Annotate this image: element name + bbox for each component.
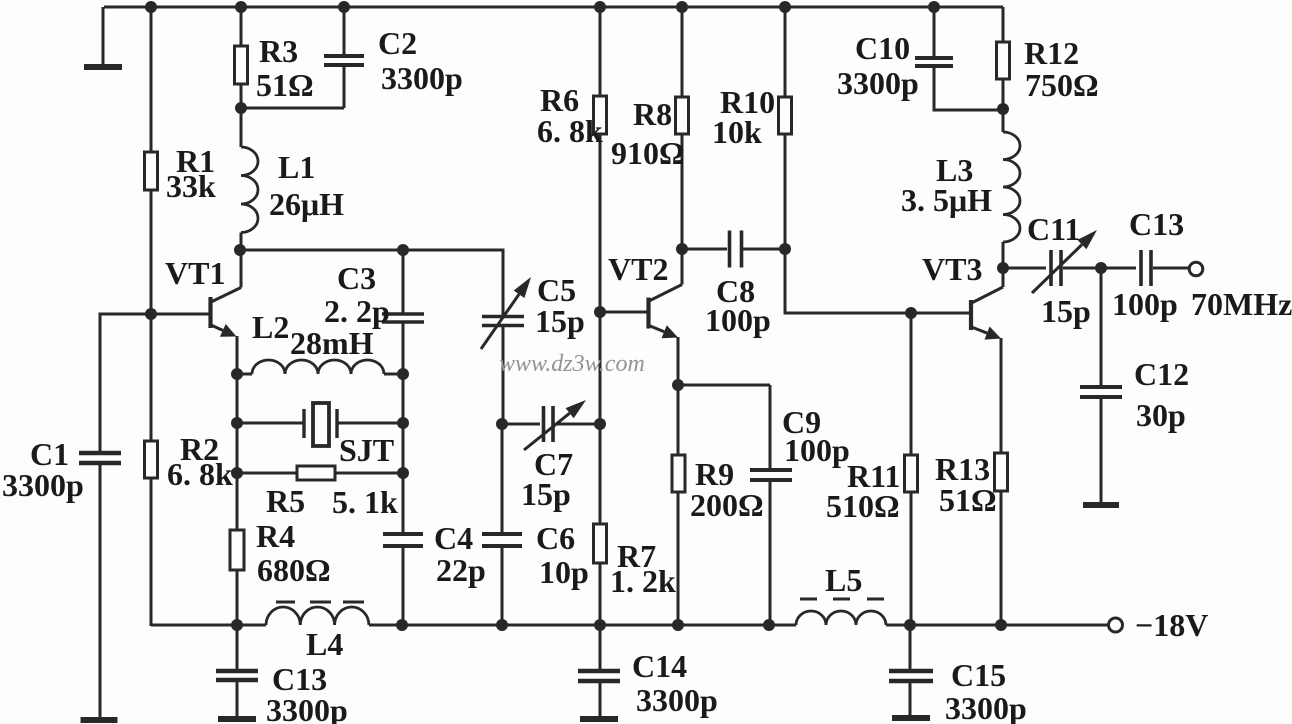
inductor L4	[266, 607, 369, 625]
capacitor C12	[1080, 385, 1122, 389]
wire C14 stub	[599, 625, 602, 670]
wire C14 to ground	[599, 681, 602, 717]
svg-text:33k: 33k	[166, 168, 216, 204]
wire C3 top	[402, 250, 405, 313]
capacitor C2	[324, 54, 364, 58]
wire C12 top	[1100, 268, 1103, 386]
wire C2 top	[343, 7, 346, 54]
inductor L5	[796, 611, 886, 625]
wire R2 to rail	[150, 478, 153, 626]
inductor L1	[241, 147, 258, 233]
wire C9 top	[769, 385, 772, 469]
svg-text:750Ω: 750Ω	[1025, 67, 1099, 103]
svg-text:L1: L1	[278, 149, 315, 185]
wire C3 to L2 node	[402, 322, 405, 374]
wire R10 top	[784, 7, 787, 97]
wire VT2 base	[600, 311, 647, 314]
wire emitter node to R9	[677, 385, 680, 455]
svg-text:www.dz3w.com: www.dz3w.com	[499, 351, 645, 377]
ground C1	[81, 717, 118, 723]
capacitor C1	[79, 451, 121, 456]
capacitor C6	[482, 532, 522, 536]
svg-text:R3: R3	[259, 33, 298, 69]
svg-text:L2: L2	[252, 309, 289, 345]
wire C10 top	[933, 7, 936, 56]
svg-text:L5: L5	[825, 562, 862, 598]
wire R1 column top	[150, 7, 153, 152]
svg-text:R8: R8	[633, 96, 672, 132]
svg-text:C15: C15	[951, 657, 1006, 693]
wire C7 row left	[502, 423, 540, 426]
wire VT3 base feed	[785, 249, 969, 313]
wire crystal left	[237, 422, 304, 425]
wire R10 bottom	[784, 134, 787, 249]
resistor R10	[779, 97, 792, 134]
wire bottom rail middle	[369, 624, 796, 627]
wire R3 bottom	[240, 84, 243, 147]
wire emitter to crystal node	[236, 374, 239, 473]
capacitor C13 output	[1139, 250, 1143, 286]
ground C13	[218, 716, 256, 722]
wire R1 to R2	[150, 190, 153, 441]
svg-text:70MHz: 70MHz	[1191, 286, 1292, 322]
resistor R11	[905, 455, 918, 492]
wire C13 to terminal	[1153, 267, 1189, 270]
resistor R2	[145, 441, 158, 478]
svg-text:680Ω: 680Ω	[257, 552, 331, 588]
svg-text:10p: 10p	[539, 554, 589, 590]
wire R11 top	[910, 313, 913, 455]
capacitor C11 variable	[1049, 250, 1053, 286]
capacitor C10	[915, 56, 953, 60]
capacitor C5 variable	[482, 315, 524, 318]
svg-text:C3: C3	[337, 260, 376, 296]
resistor R3	[235, 46, 248, 84]
terminal 70MHz	[1189, 262, 1203, 276]
svg-text:510Ω: 510Ω	[826, 488, 900, 524]
wire R4 to rail	[236, 570, 239, 626]
svg-text:3300p: 3300p	[266, 692, 348, 724]
wire R3-C2 link	[241, 107, 344, 110]
svg-text:3300p: 3300p	[2, 467, 84, 503]
wire VT1 collector row	[240, 250, 503, 315]
wire L2 node to R5 node	[402, 374, 405, 473]
svg-text:R5: R5	[266, 483, 305, 519]
svg-text:VT1: VT1	[165, 255, 225, 291]
capacitor C7 variable	[542, 406, 546, 442]
svg-text:15p: 15p	[535, 303, 585, 339]
svg-text:C4: C4	[434, 520, 473, 556]
wire C12 bottom	[1100, 397, 1103, 503]
wire top supply rail	[104, 6, 1003, 9]
resistor R13	[995, 453, 1008, 491]
wire R8 bottom	[681, 134, 684, 249]
wire bottom rail left	[151, 624, 266, 627]
wire C2 bottom	[343, 65, 346, 108]
wire bottom rail right	[886, 624, 1109, 627]
wire R5 right	[335, 472, 403, 475]
wire L2 left	[237, 373, 252, 376]
capacitor C13 bottom	[216, 669, 258, 674]
svg-text:26μH: 26μH	[269, 186, 344, 222]
wire C13 stub	[236, 626, 239, 670]
wire R6 top	[599, 7, 602, 96]
svg-text:100p: 100p	[1112, 286, 1178, 322]
svg-text:L4: L4	[306, 626, 343, 662]
capacitor C3	[382, 312, 424, 316]
wire crystal right	[337, 422, 403, 425]
wire C1 to ground	[99, 462, 102, 718]
ground C12	[1083, 502, 1119, 508]
wire R11 to rail	[910, 492, 913, 625]
resistor R8	[676, 97, 689, 134]
svg-text:15p: 15p	[1041, 293, 1091, 329]
svg-text:6. 8k: 6. 8k	[537, 113, 603, 149]
svg-text:28mH: 28mH	[290, 325, 374, 361]
wire L3 bottom	[1002, 242, 1005, 268]
wire node to C7 row	[599, 312, 602, 424]
svg-text:SJT: SJT	[339, 432, 394, 468]
ground top-left	[102, 7, 105, 64]
svg-text:VT3: VT3	[922, 251, 982, 287]
svg-text:C6: C6	[536, 520, 575, 556]
wire C5 to C7 node	[502, 326, 505, 425]
wire R5 left	[237, 472, 297, 475]
svg-text:30p: 30p	[1136, 397, 1186, 433]
wire C6 top	[501, 424, 504, 533]
svg-text:200Ω: 200Ω	[690, 487, 764, 523]
transistor VT1	[208, 297, 212, 328]
svg-text:C13: C13	[1129, 206, 1184, 242]
inductor L4 core dashes	[276, 601, 295, 604]
svg-text:3. 5μH: 3. 5μH	[901, 182, 992, 218]
wire R13 to rail	[1000, 491, 1003, 625]
svg-text:910Ω: 910Ω	[611, 135, 685, 171]
wire C13 to ground	[236, 680, 239, 717]
wire C6 bottom	[501, 546, 504, 625]
svg-text:22p: 22p	[436, 552, 486, 588]
svg-text:C2: C2	[378, 25, 417, 61]
wire C15 stub	[909, 625, 912, 670]
inductor L2	[252, 360, 384, 374]
wire C4 to rail	[402, 546, 405, 625]
svg-text:5. 1k: 5. 1k	[332, 484, 398, 520]
wire R7 to rail	[599, 563, 602, 625]
svg-text:51Ω: 51Ω	[939, 482, 997, 518]
svg-text:1. 2k: 1. 2k	[610, 563, 676, 599]
resistor R5	[297, 466, 335, 480]
wire L1 to collector node	[240, 233, 243, 251]
resistor R1	[145, 152, 158, 190]
svg-text:R12: R12	[1024, 35, 1079, 71]
wire C8 left	[682, 248, 727, 251]
resistor R6	[594, 96, 607, 134]
svg-text:15p: 15p	[521, 476, 571, 512]
crystal SJT	[302, 409, 305, 438]
wire C15 to ground	[909, 681, 912, 716]
wire R12 bottom	[1002, 79, 1005, 132]
terminal -18V	[1109, 618, 1123, 632]
svg-text:C12: C12	[1134, 356, 1189, 392]
wire R12 top	[1002, 7, 1005, 42]
wire C11 left	[1003, 267, 1046, 270]
inductor L5 core dashes	[800, 598, 817, 601]
wire C13 left	[1101, 267, 1136, 270]
svg-text:C14: C14	[632, 648, 687, 684]
resistor R7	[594, 524, 607, 563]
wire R5 node to R4	[236, 473, 239, 530]
wire R6 to base node	[599, 134, 602, 312]
wire emitter to C9	[678, 384, 770, 387]
ground C15	[892, 715, 930, 721]
svg-text:VT2: VT2	[608, 251, 668, 287]
transistor VT3	[969, 300, 973, 330]
wire R9 to rail	[677, 492, 680, 625]
svg-text:3300p: 3300p	[636, 682, 718, 718]
capacitor C8	[728, 231, 732, 268]
svg-text:−18V: −18V	[1135, 607, 1208, 643]
svg-text:3300p: 3300p	[945, 690, 1027, 724]
junction dots	[145, 1, 157, 13]
wire R3 top	[240, 7, 243, 46]
resistor R9	[672, 455, 685, 492]
svg-text:100p: 100p	[705, 302, 771, 338]
transistor VT2	[646, 298, 650, 329]
capacitor C15	[889, 669, 933, 674]
wire C9 to rail	[769, 480, 772, 625]
svg-text:6. 8k: 6. 8k	[167, 456, 233, 492]
wire C11 right	[1063, 267, 1101, 270]
wire VT2 emitter	[677, 337, 680, 385]
svg-text:51Ω: 51Ω	[256, 67, 314, 103]
wire VT1 base feed	[100, 314, 209, 452]
wire C7 row right	[556, 423, 600, 426]
wire C10 bottom	[934, 66, 1003, 110]
inductor L3	[1003, 132, 1020, 242]
wire R5 node to C4	[402, 473, 405, 533]
svg-text:C11: C11	[1027, 211, 1080, 247]
svg-text:2. 2p: 2. 2p	[324, 293, 390, 329]
svg-text:C10: C10	[855, 30, 910, 66]
capacitor C14	[578, 669, 620, 674]
wire R8 top	[681, 7, 684, 97]
svg-text:3300p: 3300p	[837, 65, 919, 101]
svg-text:100p: 100p	[784, 432, 850, 468]
resistor R12	[997, 42, 1010, 79]
wire L2 right	[384, 373, 403, 376]
capacitor C9	[750, 468, 792, 472]
wire C8 right	[743, 248, 785, 251]
capacitor C4	[383, 532, 423, 536]
wire VT1 emitter	[236, 336, 239, 374]
wire VT3 emitter	[1000, 338, 1003, 453]
svg-text:3300p: 3300p	[381, 60, 463, 96]
wire C7 to R7	[599, 424, 602, 524]
resistor R4	[230, 530, 244, 570]
svg-text:R4: R4	[256, 518, 295, 554]
svg-text:10k: 10k	[712, 114, 762, 150]
ground C14	[580, 716, 618, 722]
